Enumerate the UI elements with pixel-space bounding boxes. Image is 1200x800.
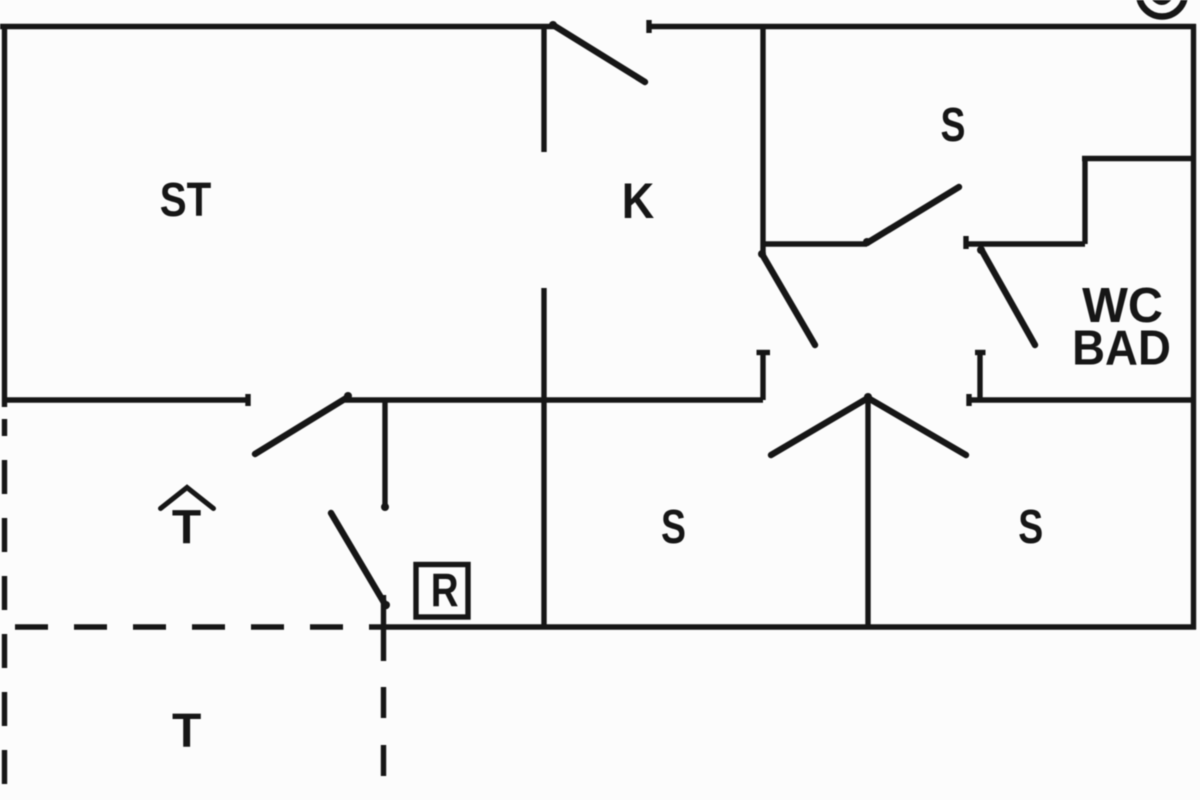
wall left outer solid bbox=[2, 24, 7, 407]
wall S bottom left part bbox=[763, 241, 867, 246]
svg-text:T: T bbox=[172, 705, 201, 758]
wall WC bottom bbox=[969, 397, 1196, 402]
wall K/S vertical bbox=[760, 24, 765, 253]
door leaf top entrance bbox=[553, 25, 645, 82]
wall corridor left bbox=[2, 397, 248, 402]
svg-text:S: S bbox=[1018, 501, 1043, 555]
wall notch horizontal bbox=[1082, 156, 1196, 161]
door leaf WC bbox=[981, 249, 1035, 345]
logo circle top right bbox=[1139, 0, 1185, 17]
wall center bedroom divider bbox=[865, 397, 870, 627]
wall S bottom right part bbox=[966, 241, 1085, 246]
hinge dot terrace bbox=[382, 601, 390, 609]
svg-text:S: S bbox=[941, 99, 966, 153]
door leaf left bedroom bbox=[771, 398, 868, 455]
logo glyph fragment bbox=[1153, 0, 1170, 2]
tick WC bottom wall left end bbox=[966, 394, 971, 406]
wall top-left segment bbox=[0, 24, 554, 29]
wall dashed left lower bbox=[2, 419, 7, 788]
door leaf right bedroom bbox=[868, 398, 966, 455]
wall dashed terrace bottom bbox=[15, 624, 385, 629]
wall K stub bbox=[760, 352, 765, 400]
hinge dot double door apex bbox=[864, 393, 872, 401]
hinge dot top S bbox=[863, 238, 871, 246]
tick WC stub cap bbox=[975, 350, 986, 355]
svg-text:S: S bbox=[661, 501, 686, 555]
symbol chevron hat bbox=[161, 488, 214, 509]
wall right outer bbox=[1191, 24, 1196, 630]
svg-text:ST: ST bbox=[160, 174, 212, 227]
hinge dot top entrance bbox=[549, 21, 557, 29]
door leaf kitchen bbox=[762, 254, 815, 345]
hinge dot hall bbox=[344, 392, 352, 400]
svg-text:K: K bbox=[622, 174, 654, 230]
svg-text:R: R bbox=[431, 565, 459, 617]
wall WC stub bbox=[977, 354, 982, 400]
tick S bottom wall left end bbox=[963, 236, 968, 249]
wall top-right segment bbox=[649, 24, 1196, 29]
wall hall stub lower bbox=[381, 595, 386, 661]
door leaf terrace bbox=[331, 513, 386, 606]
door leaf hall/ST bbox=[255, 397, 348, 454]
door leaf top S room bbox=[867, 187, 959, 243]
wall corridor mid bbox=[345, 397, 763, 402]
svg-text:BAD: BAD bbox=[1072, 321, 1171, 376]
tick corridor left end bbox=[245, 394, 250, 406]
svg-text:T: T bbox=[172, 502, 201, 555]
wall notch vertical bbox=[1082, 156, 1087, 244]
wall hall stub upper bbox=[382, 400, 387, 507]
tick K stub cap bbox=[757, 350, 771, 355]
wall ST/K upper bbox=[541, 26, 546, 152]
wall ST/K lower bbox=[541, 288, 546, 627]
hinge dot WC bbox=[977, 246, 985, 254]
wire tick at top wall opening bbox=[646, 20, 651, 33]
wall bottom solid bbox=[382, 624, 1196, 629]
hinge dot kitchen bbox=[758, 250, 766, 258]
symbol R box bbox=[416, 565, 468, 618]
wall dashed terrace right bbox=[381, 687, 386, 777]
end dot hall stub bbox=[381, 503, 389, 511]
